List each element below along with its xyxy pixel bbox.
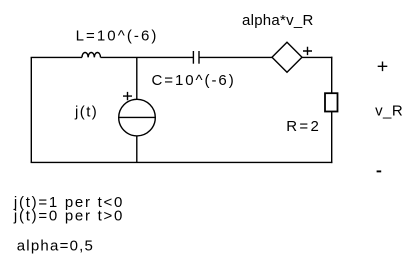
capacitor C1 C=10^(-6) plate left bbox=[192, 51, 194, 64]
wire capacitor to dependent source bbox=[199, 56, 272, 58]
svg-text:v_R: v_R bbox=[375, 103, 403, 120]
wire right vertical upper bbox=[331, 57, 333, 93]
minus sign of v_R polarity bbox=[377, 170, 382, 172]
wire bottom horizontal bbox=[31, 161, 333, 163]
resistor R1 body bbox=[325, 93, 338, 111]
plus sign of current source bbox=[123, 92, 132, 100]
plus sign of dependent source bbox=[303, 47, 312, 55]
wire top-left segment bbox=[31, 56, 82, 58]
svg-text:C=10^(-6): C=10^(-6) bbox=[152, 72, 234, 89]
dependent source U1 diamond alpha*v_R bbox=[272, 42, 302, 72]
wire middle vertical lower (source to bottom) bbox=[136, 136, 138, 163]
svg-text:R=2: R=2 bbox=[286, 118, 319, 135]
capacitor C1 plate right bbox=[198, 51, 200, 64]
wire dependent source to top-right corner bbox=[302, 56, 332, 58]
svg-text:alpha*v_R: alpha*v_R bbox=[242, 12, 313, 29]
current source J1 bar bbox=[119, 116, 156, 118]
wire right vertical lower bbox=[331, 112, 333, 164]
plus sign of v_R polarity bbox=[378, 62, 388, 72]
wire middle vertical upper (node to source) bbox=[136, 57, 138, 99]
wire left vertical bbox=[30, 57, 32, 162]
svg-text:L=10^(-6): L=10^(-6) bbox=[76, 28, 157, 45]
svg-text:j(t)=0 per t>0: j(t)=0 per t>0 bbox=[13, 208, 123, 225]
svg-text:j(t): j(t) bbox=[74, 104, 97, 121]
inductor L1 L=10^(-6) bbox=[82, 52, 101, 57]
wire inductor to capacitor bbox=[101, 56, 194, 58]
svg-text:alpha=0,5: alpha=0,5 bbox=[17, 237, 93, 254]
current source J1 circle bbox=[119, 99, 156, 136]
